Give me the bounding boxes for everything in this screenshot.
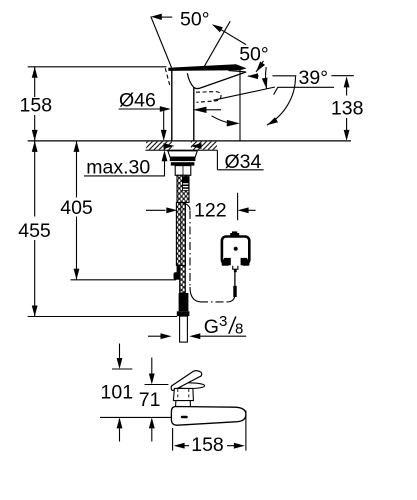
- angle 50 second leader arrow: [212, 24, 246, 44]
- side view spout body: [171, 407, 246, 426]
- dimension 122: [146, 193, 256, 221]
- dimension max.30 lower arrow: [84, 150, 167, 176]
- side view lever blade: [171, 371, 202, 391]
- side view dimension 158: [174, 443, 245, 449]
- control box cable: [233, 264, 238, 297]
- label 405 (hose length): [60, 197, 93, 219]
- side view neck: [176, 401, 191, 407]
- label 158 bottom (spout length): [191, 434, 224, 456]
- dimension 455 extension line: [28, 316, 177, 318]
- dashed lever tilted position: [165, 68, 170, 87]
- svg-text:max.30: max.30: [86, 157, 150, 179]
- svg-text:50°: 50°: [239, 43, 269, 65]
- label G 3/8 (thread): [204, 313, 244, 338]
- hose ferrule: [177, 293, 190, 316]
- faucet dome curve: [187, 73, 194, 87]
- control box: [222, 231, 250, 265]
- label max.30 (deck thickness): [86, 157, 150, 179]
- svg-text:405: 405: [60, 197, 93, 219]
- label 50 degrees first: [180, 9, 210, 31]
- G3/8 connection tube: [180, 316, 188, 342]
- sensor cable vertical dash-dot: [189, 211, 191, 287]
- spout top edge near tip: [229, 71, 246, 72]
- angle 50 first arrow and shaft: [151, 14, 173, 20]
- deck top line: [28, 140, 351, 142]
- side view outlet dash: [181, 416, 188, 419]
- svg-text:455: 455: [18, 220, 51, 242]
- side view 158 extension lines: [173, 411, 246, 451]
- sensor cable horizontal dash-dot: [200, 301, 228, 303]
- label 101: [101, 382, 134, 404]
- label 158 (height above deck): [20, 95, 53, 117]
- side view cartridge body: [173, 388, 193, 400]
- svg-text:39°: 39°: [299, 67, 329, 89]
- spout bottom edge: [194, 72, 246, 89]
- control box cable curve: [228, 295, 235, 302]
- sensor cable exit: [183, 203, 190, 211]
- side view lower arrows: [117, 417, 155, 441]
- spout tip horizontal reference line: [247, 73, 354, 79]
- faucet body right edge: [193, 88, 195, 141]
- deck bottom line: [146, 149, 218, 151]
- dimension 405 extension line: [71, 279, 177, 281]
- lever top bar: [168, 64, 246, 71]
- dimension G3/8 arrows: [148, 333, 246, 339]
- dimension 158 left vertical line: [32, 67, 38, 317]
- svg-text:50°: 50°: [180, 9, 210, 31]
- dimension 158 top extension line: [28, 66, 167, 68]
- label 50 degrees second: [239, 43, 269, 65]
- dimension Ø46 right arrow: [193, 107, 221, 113]
- dimension Ø34 arrows: [164, 143, 202, 149]
- svg-text:138: 138: [331, 97, 364, 119]
- dimension 138 vertical line: [344, 76, 350, 140]
- svg-text:158: 158: [20, 95, 53, 117]
- label 122 (cable offset): [194, 199, 227, 221]
- deck hatch right: [191, 142, 217, 150]
- spout axis line: [214, 87, 276, 100]
- side view dimension 101 upper arrow: [112, 344, 132, 370]
- faucet body left edge: [171, 70, 173, 141]
- angle 50 second lower arrow: [256, 61, 265, 72]
- dimension max.30 upper arrow: [161, 109, 167, 141]
- svg-text:122: 122: [194, 199, 227, 221]
- dimension 405 vertical line: [74, 141, 80, 280]
- flexible hoses braid pair: [176, 203, 185, 266]
- threaded shank: [175, 166, 191, 176]
- label Ø46 with leader: [119, 90, 171, 112]
- angle 50 first leg ray A: [151, 17, 172, 68]
- svg-text:Ø46: Ø46: [119, 90, 156, 112]
- side view outlet centerline: [100, 416, 171, 418]
- mounting flange below deck: [168, 151, 198, 157]
- svg-text:158: 158: [191, 434, 224, 456]
- dashed spout lowered position: [196, 92, 221, 103]
- label Ø34 with leader: [217, 150, 263, 173]
- svg-text:Ø34: Ø34: [225, 151, 262, 173]
- svg-text:71: 71: [139, 389, 161, 411]
- swivel arc right with arrow: [267, 77, 296, 126]
- angle 50 second leg ray B: [204, 21, 230, 67]
- label 71: [139, 389, 161, 411]
- label 138 (spout height): [331, 97, 364, 119]
- hose 2 lower braid: [180, 266, 186, 294]
- svg-text:8: 8: [235, 321, 243, 338]
- label 455 (total height): [18, 220, 51, 242]
- deck hatch left: [146, 142, 172, 150]
- sensor cable corner: [190, 287, 200, 302]
- swivel arc below spout with arrows: [212, 116, 240, 127]
- label 39 degrees: [274, 67, 334, 95]
- hose 1 end fitting: [174, 265, 181, 280]
- svg-text:101: 101: [101, 382, 134, 404]
- svg-text:G: G: [204, 316, 219, 338]
- spout tip vertical reference line: [239, 68, 241, 141]
- mounting nut: [170, 157, 196, 165]
- side view dome ellipse: [174, 383, 205, 389]
- side view dimension 71 upper arrow: [145, 358, 169, 385]
- angle 39 arc with arrow: [262, 67, 268, 89]
- svg-text:3: 3: [219, 313, 227, 330]
- hose bundle upper braid: [177, 175, 189, 202]
